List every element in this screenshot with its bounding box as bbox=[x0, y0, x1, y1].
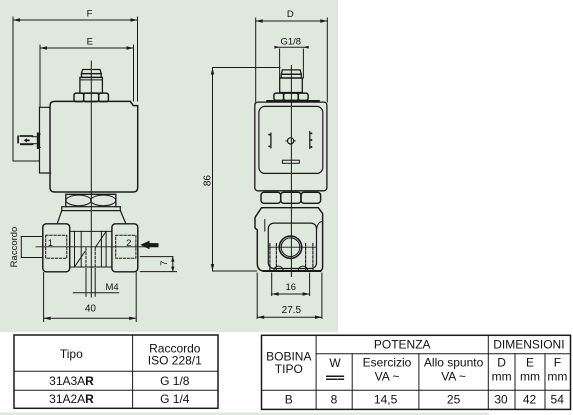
port arc left bbox=[274, 266, 283, 271]
F extension line left bbox=[12, 17, 14, 161]
dimension 16 bbox=[272, 273, 310, 296]
svg-text:VA ~: VA ~ bbox=[441, 369, 466, 383]
port circle inner bbox=[281, 238, 300, 257]
svg-text:F: F bbox=[87, 8, 93, 19]
flow arrow into port 2 bbox=[140, 241, 158, 250]
svg-text:14,5: 14,5 bbox=[374, 392, 398, 406]
svg-text:DIMENSIONI: DIMENSIONI bbox=[493, 338, 564, 352]
hex nut under connector bbox=[261, 192, 321, 203]
dimension 40 bbox=[44, 273, 137, 322]
D extension right bbox=[326, 18, 328, 102]
dimension G1/8 bbox=[274, 46, 308, 78]
svg-text:27.5: 27.5 bbox=[282, 305, 302, 316]
coil top plate bbox=[267, 100, 319, 102]
thread dashed box right bbox=[116, 235, 136, 258]
svg-text:POTENZA: POTENZA bbox=[374, 338, 431, 352]
port centerline bbox=[36, 246, 158, 248]
F extension jog bbox=[13, 160, 40, 162]
svg-text:D: D bbox=[287, 9, 294, 20]
valve face plate bbox=[268, 223, 316, 268]
svg-text:D: D bbox=[497, 355, 506, 369]
center union block bbox=[70, 231, 112, 267]
connector box bbox=[255, 102, 327, 191]
valve body front bbox=[255, 208, 323, 271]
svg-text:8: 8 bbox=[331, 392, 338, 406]
svg-text:7: 7 bbox=[159, 261, 170, 266]
armature tube neck bbox=[80, 77, 103, 93]
port circle outer bbox=[279, 236, 301, 258]
dimension F line bbox=[13, 18, 138, 21]
cap nut top bbox=[82, 70, 102, 78]
svg-text:Raccordo: Raccordo bbox=[9, 227, 20, 268]
hex nut front bbox=[274, 93, 308, 100]
Raccordo bracket bbox=[21, 237, 43, 258]
svg-text:B: B bbox=[285, 392, 293, 406]
body fillet right bbox=[317, 222, 323, 231]
dimension 7 bbox=[140, 257, 176, 272]
svg-text:31A3AR: 31A3AR bbox=[49, 374, 94, 388]
terminal right bbox=[310, 132, 313, 148]
cap nut front bbox=[281, 70, 301, 78]
svg-text:25: 25 bbox=[447, 392, 461, 406]
gland nut under coil bbox=[66, 194, 116, 206]
M4 thread dashed lines bbox=[73, 248, 118, 296]
svg-text:16: 16 bbox=[286, 282, 297, 293]
coil body bbox=[50, 101, 138, 192]
valve body bottom edge bbox=[264, 270, 321, 272]
svg-text:Esercizio: Esercizio bbox=[363, 356, 412, 370]
svg-text:G 1/4: G 1/4 bbox=[160, 392, 190, 406]
port arc right bbox=[298, 266, 307, 271]
body step left bbox=[264, 220, 266, 232]
center screw bbox=[286, 138, 295, 144]
svg-text:54: 54 bbox=[551, 392, 565, 406]
base plate bbox=[62, 207, 121, 211]
D extension left bbox=[255, 18, 257, 102]
connector face bbox=[259, 106, 323, 173]
svg-text:ISO 228/1: ISO 228/1 bbox=[148, 353, 202, 367]
terminal left bbox=[268, 133, 271, 148]
svg-text:TIPO: TIPO bbox=[275, 362, 303, 376]
centerline left drawing bbox=[90, 61, 92, 297]
svg-text:Allo spunto: Allo spunto bbox=[424, 356, 484, 370]
svg-text:Tipo: Tipo bbox=[60, 347, 83, 361]
svg-text:F: F bbox=[554, 355, 561, 369]
dimension E line bbox=[40, 46, 134, 49]
hex fitting right bbox=[112, 224, 138, 272]
dimension 27.5 bbox=[257, 273, 322, 319]
centerline right drawing bbox=[290, 66, 292, 277]
valve body shoulders bbox=[57, 210, 126, 223]
hex fitting left bbox=[43, 224, 70, 272]
port horizontal centerline bbox=[268, 246, 316, 248]
svg-text:E: E bbox=[526, 355, 534, 369]
spade connector bbox=[18, 134, 40, 148]
neck front bbox=[280, 78, 303, 93]
svg-text:W: W bbox=[329, 356, 341, 370]
mounting bracket bbox=[40, 107, 51, 173]
F extension line right bbox=[137, 17, 139, 101]
svg-text:mm: mm bbox=[492, 369, 512, 383]
svg-text:G 1/8: G 1/8 bbox=[160, 374, 190, 388]
dashed channel left bbox=[270, 244, 277, 271]
svg-text:mm: mm bbox=[520, 369, 540, 383]
svg-text:VA ~: VA ~ bbox=[375, 369, 400, 383]
cable slot bbox=[282, 160, 299, 163]
E extension line right bbox=[133, 45, 135, 101]
hex nut side view bbox=[74, 93, 108, 102]
svg-text:M4: M4 bbox=[106, 282, 119, 293]
svg-text:40: 40 bbox=[85, 304, 97, 315]
svg-text:G1/8: G1/8 bbox=[280, 36, 301, 47]
dashed channel right bbox=[306, 244, 313, 271]
svg-text:86: 86 bbox=[203, 175, 214, 187]
DC symbol bbox=[327, 376, 344, 379]
svg-text:E: E bbox=[87, 37, 93, 48]
green drawing panel bbox=[0, 0, 338, 332]
E extension line left bbox=[39, 45, 41, 107]
dimension D line bbox=[256, 19, 328, 22]
svg-text:30: 30 bbox=[494, 392, 508, 406]
dimension 86 bbox=[211, 68, 280, 272]
bottom green strip bbox=[0, 413, 489, 415]
svg-text:42: 42 bbox=[523, 392, 537, 406]
svg-text:mm: mm bbox=[547, 369, 567, 383]
thread dashed box left bbox=[46, 235, 67, 258]
svg-text:31A2AR: 31A2AR bbox=[49, 392, 94, 406]
